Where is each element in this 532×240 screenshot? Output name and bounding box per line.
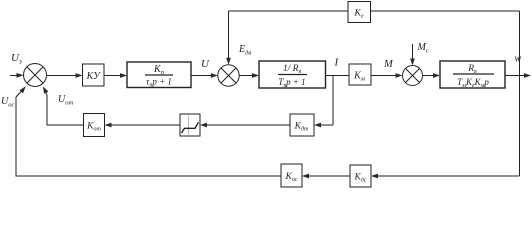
block Kds speed sensor [350,165,371,187]
node Mc load torque input [410,42,429,66]
svg-text:Ке: Ке [354,9,364,20]
wire Kdt to nonlinearity [200,123,290,128]
wire Km to S3 [371,73,403,78]
wire current loop to Kdt [314,123,333,128]
wire nonlinearity to Kot [105,123,181,128]
node w output label [515,54,522,65]
svg-text:w: w [515,54,522,65]
wire Kds to Kos [302,174,350,179]
wire output tap vertical down to speed loop [519,76,521,177]
svg-text:Кдт: Кдт [294,122,309,133]
wire top EMF feedback left segment [229,10,349,12]
svg-text:τпр + 1: τпр + 1 [146,77,172,89]
svg-text:Uос: Uос [1,96,14,109]
svg-text:Тяр + 1: Тяр + 1 [278,77,305,89]
wire armature to Km [326,75,350,77]
wire Kot to S1 (Uot) [43,86,84,125]
svg-text:Км: Км [353,71,365,83]
summing junction S3 [403,66,423,86]
block Kdt current sensor [290,114,314,136]
wire Kos to S1 (Uos) [16,86,281,176]
node M label [383,59,394,70]
svg-text:М: М [383,59,394,70]
block Km [349,64,371,85]
block Kot current cutoff gain [84,114,105,137]
block converter Kp/(tau_p*p+1) [127,62,191,89]
svg-text:Uот: Uот [58,94,73,107]
node Edv label [238,44,251,57]
wire top EMF feedback right segment [371,10,520,12]
wire S1 to KU [47,73,83,78]
block KU (corrector) [83,64,105,86]
block mechanical Rya/(Tm*Ke*Km*p) [440,61,505,89]
node I label [334,57,340,69]
svg-text:Кп: Кп [153,64,164,76]
wire S3 to mech block [423,73,441,78]
summing junction S1 [24,64,47,87]
block Ke EMF coefficient [348,2,371,23]
svg-text:U: U [201,58,210,70]
block armature 1/Rya/(Tya*p+1) [259,61,326,89]
svg-text:Едв: Едв [238,44,251,57]
wire converter to S2 [191,73,218,78]
svg-text:Мс: Мс [417,42,429,55]
wire S2 to armature block [239,73,259,78]
svg-text:КУ: КУ [86,71,102,82]
node U label [201,58,210,70]
svg-text:Кос: Кос [285,172,298,183]
svg-text:1/ Rя: 1/ Rя [283,64,302,75]
block nonlinearity (current cutoff dead zone) [180,114,200,136]
wire speed loop to Kds [371,174,520,179]
wire input to S1 [10,73,24,78]
summing junction S2 [218,65,239,86]
wire EMF down into S2 [226,11,231,65]
svg-text:ТмКеКмр: ТмКеКмр [457,77,489,89]
node Uos label [1,96,14,109]
block Kos speed feedback gain [281,164,302,187]
svg-text:Кот: Кот [86,122,101,133]
svg-text:Кдс: Кдс [353,173,366,184]
node Uot label [58,94,73,107]
wire output [505,73,531,78]
wire output tap vertical up to EMF loop [519,11,521,76]
wire KU to converter block [104,73,127,78]
node Uz input label [11,52,22,66]
svg-text:Uз: Uз [11,52,22,66]
svg-text:I: I [334,57,340,69]
wire current tap down [332,76,334,126]
